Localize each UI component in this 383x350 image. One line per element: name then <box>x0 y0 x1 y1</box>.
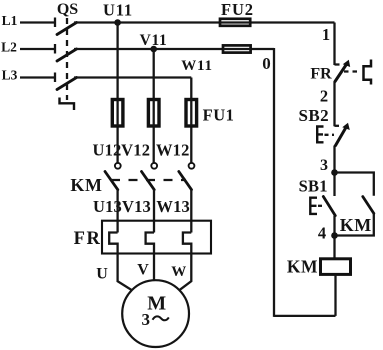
wire bottom return bus <box>274 315 336 317</box>
wire V to motor <box>153 254 155 281</box>
button SB2 NC contact blade <box>336 127 347 146</box>
contactor KM main contact blade pole 3 <box>179 172 192 190</box>
coil KM rectangle <box>321 259 351 275</box>
svg-text:KM: KM <box>287 257 318 277</box>
svg-text:KM: KM <box>70 175 102 195</box>
motor M circle <box>122 280 189 347</box>
contactor KM aux contact blade <box>363 197 374 214</box>
relay FR NC contact blade <box>335 64 347 82</box>
button SB2 NC contact blade arrow <box>342 123 350 130</box>
node 3 junction dot <box>331 169 338 176</box>
svg-text:2: 2 <box>320 87 328 106</box>
wire L1 phase bus to right corner <box>74 21 335 23</box>
svg-text:U: U <box>96 266 108 283</box>
contactor KM main contact terminal circle pole 2 <box>151 163 157 169</box>
wire L3 lead-in <box>20 76 55 78</box>
button SB1 dashed link <box>318 205 324 207</box>
svg-text:0: 0 <box>262 54 271 73</box>
svg-text:V11: V11 <box>140 32 168 49</box>
svg-text:W11: W11 <box>181 58 213 74</box>
svg-text:3: 3 <box>320 157 328 174</box>
fuse FU1 element 3 <box>186 100 197 127</box>
svg-text:SB1: SB1 <box>299 177 328 196</box>
fuse FU1 element 2 <box>148 100 159 127</box>
svg-text:W12: W12 <box>156 141 190 160</box>
svg-text:4: 4 <box>318 224 326 243</box>
switch QS blade pole 2 <box>57 49 77 61</box>
svg-text:U11: U11 <box>103 1 133 20</box>
node L3 contact tick <box>54 73 56 83</box>
svg-text:W: W <box>171 264 186 280</box>
svg-text:QS: QS <box>57 1 78 18</box>
svg-text:M: M <box>147 293 166 315</box>
wire control (SB2 to node 3) <box>333 146 335 197</box>
wire V phase vertical (V11 to KM contact) <box>153 49 155 163</box>
contactor KM main linkage dashed line <box>111 179 186 181</box>
relay FR heater element 3 <box>183 233 191 254</box>
fuse FU1 element 1 <box>112 100 123 127</box>
wire L1 lead-in <box>20 21 55 23</box>
wire L2 lead-in <box>20 48 55 50</box>
wire through fuse FU1 element 3 <box>190 100 192 127</box>
wire control line 1 vertical (corner to FR contact) <box>333 23 335 66</box>
svg-text:SB2: SB2 <box>299 106 330 125</box>
svg-text:L3: L3 <box>2 68 18 83</box>
node U11 junction dot <box>114 19 121 26</box>
svg-text:U12: U12 <box>92 141 121 160</box>
wire L2 phase bus to 0 corner <box>74 48 274 50</box>
relay FR NC contact hook <box>335 63 340 65</box>
relay FR NC contact dashed link <box>344 70 361 72</box>
wire through fuse FU1 element 1 <box>116 100 118 127</box>
svg-text:FR: FR <box>74 229 102 249</box>
fuse FU2 element 1 <box>220 19 250 26</box>
relay FR heater element 2 <box>146 233 154 254</box>
motor tilde mark <box>153 316 169 320</box>
button SB2 operator E symbol <box>317 127 323 143</box>
svg-text:L2: L2 <box>1 40 17 55</box>
svg-text:V: V <box>137 262 149 279</box>
wire control line 0 vertical <box>273 48 275 317</box>
wire through fuse FU2 element 1 <box>220 21 250 23</box>
button SB2 NC contact hook <box>335 125 340 127</box>
wire control (FR contact to SB2) <box>333 82 335 127</box>
contactor KM main contact terminal circle pole 1 <box>115 163 121 169</box>
switch QS handle <box>60 98 75 111</box>
wire U to motor <box>118 254 132 291</box>
wire through fuse FU1 element 2 <box>153 100 155 127</box>
wire through fuse FU2 element 2 <box>223 48 251 50</box>
wire U phase vertical (U11 to KM contact) <box>116 23 118 163</box>
svg-text:FU2: FU2 <box>221 0 254 19</box>
svg-text:V12: V12 <box>121 141 150 160</box>
svg-text:L1: L1 <box>2 13 18 28</box>
fuse FU2 element 2 <box>223 45 251 52</box>
wire L3 phase bus to W corner <box>74 76 191 78</box>
svg-text:V13: V13 <box>122 197 151 216</box>
button SB2 dashed link <box>325 134 335 136</box>
wire U phase (KM contact to FR element) <box>116 190 118 233</box>
svg-text:1: 1 <box>322 25 330 44</box>
switch QS linkage dashed line <box>66 18 68 100</box>
wire W to motor <box>179 254 191 291</box>
svg-text:FR: FR <box>310 66 332 83</box>
wire branch to KM aux contact <box>335 173 374 196</box>
relay FR reset actuator symbol <box>364 60 372 85</box>
wire SB1 to node 4 <box>333 216 335 260</box>
wire KM aux to node 4 <box>335 213 374 235</box>
wire W phase vertical (W11 corner to KM contact) <box>190 78 192 163</box>
wire W phase (KM contact to FR element) <box>190 190 192 233</box>
relay FR heater box <box>102 221 211 254</box>
svg-text:3: 3 <box>142 310 151 329</box>
svg-text:U13: U13 <box>93 197 122 216</box>
node V11 junction dot <box>150 46 157 53</box>
relay FR heater element 1 <box>109 233 117 254</box>
svg-text:W13: W13 <box>156 197 190 216</box>
svg-text:KM: KM <box>340 215 372 235</box>
switch QS blade pole 3 <box>57 78 77 90</box>
svg-text:FU1: FU1 <box>203 106 235 125</box>
contactor KM main contact blade pole 1 <box>105 172 118 190</box>
wire coil KM to bottom bus <box>334 275 336 316</box>
button SB1 operator E symbol <box>310 198 317 214</box>
contactor KM main contact blade pole 2 <box>142 172 155 190</box>
relay FR NC contact blade arrow <box>343 60 350 67</box>
contactor KM main contact terminal circle pole 3 <box>189 163 195 169</box>
wire V phase (KM contact to FR element) <box>153 190 155 233</box>
node 4 junction dot <box>331 232 338 239</box>
node L1 contact tick <box>54 18 56 28</box>
button SB1 NO contact blade <box>323 197 335 216</box>
node L2 contact tick <box>54 44 56 54</box>
switch QS blade pole 1 <box>57 23 77 35</box>
